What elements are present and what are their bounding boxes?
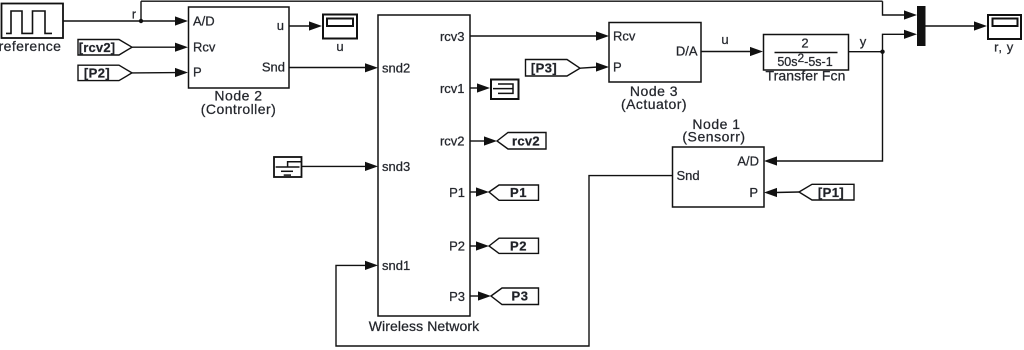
svg-text:P1: P1 <box>449 185 465 200</box>
wire junction to mux input 2 <box>883 30 918 52</box>
svg-text:Wireless Network: Wireless Network <box>369 318 480 334</box>
svg-text:(Sensorr): (Sensorr) <box>682 129 745 145</box>
svg-text:Transfer Fcn: Transfer Fcn <box>765 68 845 84</box>
svg-text:rcv1: rcv1 <box>440 81 465 96</box>
svg-text:Snd: Snd <box>262 60 285 75</box>
label u <box>336 39 343 54</box>
wire r junction up <box>140 1 142 21</box>
svg-text:P: P <box>749 185 758 200</box>
goto tag P3 <box>491 288 539 305</box>
svg-text:(Controller): (Controller) <box>201 101 276 117</box>
wire junction down to Node1 A/D <box>764 52 883 166</box>
wire feedback to snd1 <box>336 176 672 346</box>
terminator block <box>491 80 519 100</box>
svg-text:D/A: D/A <box>676 44 698 59</box>
wire rcv1 to terminator <box>470 83 490 92</box>
svg-text:snd2: snd2 <box>382 61 410 76</box>
wire P1 to goto tag <box>470 187 489 196</box>
wire Transfer Fcn to junction <box>849 51 883 53</box>
wire [P1] to Node1 P <box>764 188 799 197</box>
svg-text:y: y <box>860 34 867 49</box>
goto tag P1 <box>489 185 539 200</box>
goto tag rcv2 <box>497 133 546 150</box>
svg-text:P: P <box>193 65 202 80</box>
svg-text:A/D: A/D <box>737 154 759 169</box>
wire Node2 Snd to snd2 <box>289 63 378 72</box>
pulse generator block "reference" <box>2 4 64 39</box>
label Node 1 (Sensorr) <box>682 116 745 145</box>
from tag [rcv2] <box>78 40 132 56</box>
svg-text:rcv3: rcv3 <box>440 29 465 44</box>
wire [P2] to P <box>132 68 188 77</box>
svg-text:Snd: Snd <box>677 168 700 183</box>
wire ground to snd3 <box>302 162 378 171</box>
svg-text:snd1: snd1 <box>382 258 410 273</box>
svg-text:P2: P2 <box>449 239 465 254</box>
label y <box>860 34 867 49</box>
label r, y <box>994 40 1014 55</box>
svg-text:Rcv: Rcv <box>613 29 636 44</box>
wire rcv2 to goto tag <box>470 136 497 145</box>
svg-text:r, y: r, y <box>994 40 1014 55</box>
svg-text:P1: P1 <box>510 185 527 200</box>
svg-text:P2: P2 <box>510 239 527 254</box>
scope u <box>323 15 357 39</box>
mux <box>917 6 926 46</box>
label Node 2 (Controller) <box>201 88 276 118</box>
from tag [P1] <box>799 184 854 200</box>
wire top horizontal <box>141 0 883 2</box>
wire Node2 u to scope u <box>289 21 322 30</box>
svg-text:snd3: snd3 <box>382 159 410 174</box>
svg-text:rcv2: rcv2 <box>512 134 540 149</box>
svg-text:reference: reference <box>0 38 61 54</box>
block Node 1 (Sensorr) <box>673 147 765 207</box>
svg-text:u: u <box>277 18 284 33</box>
wire rcv3 to Node3 Rcv <box>470 31 609 40</box>
block Wireless Network <box>378 15 470 316</box>
svg-text:[P2]: [P2] <box>84 66 110 81</box>
svg-text:A/D: A/D <box>193 14 215 29</box>
svg-text:[P3]: [P3] <box>531 61 557 76</box>
label Node 3 (Actuator) <box>621 83 687 112</box>
label reference <box>0 38 61 54</box>
wire D/A to Transfer Fcn <box>701 47 763 56</box>
svg-text:(Actuator): (Actuator) <box>621 96 687 112</box>
from tag [P3] <box>526 60 581 77</box>
wire top to mux input 1 <box>883 1 918 19</box>
block Node 2 (Controller) <box>189 7 290 88</box>
svg-text:u: u <box>721 32 728 47</box>
from tag [P2] <box>78 65 132 80</box>
svg-text:P3: P3 <box>449 289 465 304</box>
label Wireless Network <box>369 318 480 334</box>
wire pulse to A/D <box>63 16 188 25</box>
goto tag P2 <box>489 238 539 253</box>
wire [rcv2] to Rcv <box>132 43 188 52</box>
label Transfer Fcn <box>765 68 845 84</box>
scope r, y <box>988 15 1021 39</box>
svg-text:[P1]: [P1] <box>818 185 844 200</box>
svg-text:Rcv: Rcv <box>193 40 216 55</box>
node y junction <box>880 50 884 54</box>
label r <box>132 8 136 22</box>
svg-text:P3: P3 <box>512 289 529 304</box>
label u <box>721 32 728 47</box>
svg-text:rcv2: rcv2 <box>440 134 465 149</box>
svg-text:P: P <box>613 60 622 75</box>
block Node 3 (Actuator) <box>609 23 701 83</box>
block Transfer Fcn <box>764 35 849 71</box>
svg-text:r: r <box>132 8 136 22</box>
svg-text:2: 2 <box>801 36 808 51</box>
ground block <box>274 157 302 177</box>
wire P3 to goto tag <box>470 291 491 300</box>
wire P2 to goto tag <box>470 241 489 250</box>
wire mux to scope <box>926 21 988 30</box>
node r junction <box>139 19 143 23</box>
wire [P3] to Node3 P <box>580 62 609 71</box>
svg-text:[rcv2]: [rcv2] <box>79 40 116 55</box>
svg-text:u: u <box>336 39 343 54</box>
